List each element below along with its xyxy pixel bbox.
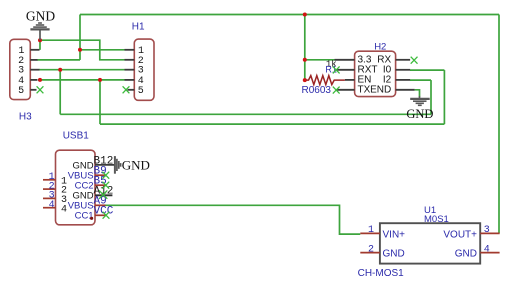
- wire vertical x=60.2: [59, 70, 61, 115]
- ground (below H2, pointing down): [410, 96, 430, 105]
- left pins (red stubs): [43, 180, 56, 208]
- junction dot (40,40.2): [38, 38, 42, 42]
- connector USB1: [43, 150, 114, 225]
- wire H2 I2 row y=80.1: [410, 79, 431, 81]
- svg-text:2: 2: [368, 244, 374, 255]
- wire GND net vertical to H3 pin1: [39, 40, 41, 50]
- wire net TOP horizontal y=14.5: [80, 14, 499, 16]
- ground (top-left, pointing up): [30, 23, 49, 40]
- svg-text:TX: TX: [358, 85, 371, 96]
- left black pin numbers (inside): [61, 176, 67, 215]
- svg-text:CC1: CC1: [75, 211, 94, 222]
- interior pin name labels: [68, 160, 94, 221]
- wire H2 I0 row y=70.1: [410, 69, 444, 71]
- svg-text:VIN+: VIN+: [383, 229, 406, 240]
- no-connect X on H1 pin5: [123, 86, 130, 93]
- svg-text:H1: H1: [132, 22, 145, 33]
- pin1 mark dot: [90, 217, 93, 220]
- wire USB1 A9 to U1 pin1: [106, 205, 361, 234]
- wire vertical x=304.8 down to resistor: [304, 15, 306, 81]
- svg-text:3: 3: [484, 225, 490, 236]
- svg-text:GND: GND: [122, 157, 150, 172]
- no-connect X on USB1 B9: [102, 172, 109, 179]
- no-connect X on H2 RX pin: [411, 57, 418, 64]
- svg-text:5: 5: [18, 86, 24, 97]
- svg-text:H3: H3: [19, 111, 32, 122]
- junction dot (40,79.9): [38, 78, 42, 82]
- wire vertical x=100: [99, 80, 101, 124]
- wire vertical x=431 up to H2 I2: [430, 80, 432, 114]
- svg-text:M0S1: M0S1: [424, 214, 449, 225]
- A9 pin red stub: [95, 204, 106, 206]
- svg-text:4: 4: [49, 200, 55, 211]
- svg-text:USB1: USB1: [63, 131, 90, 142]
- wire long horizontal y=114.3: [60, 113, 431, 115]
- wire H1 pin1 row y=49.8: [80, 49, 125, 51]
- connector H1: [125, 39, 155, 100]
- wire H3 pin4 row y=79.9: [38, 79, 125, 81]
- svg-text:4: 4: [484, 244, 490, 255]
- svg-text:GND: GND: [406, 107, 433, 121]
- svg-text:1: 1: [368, 225, 374, 236]
- wire right edge vertical x=499 down to U1 pin3: [498, 15, 500, 234]
- svg-text:GND: GND: [455, 249, 477, 260]
- no-connect X on H3 pin5: [37, 86, 44, 93]
- ground (right of USB1 B12, pointing right): [115, 156, 121, 174]
- wire vertical x=444.4 up to H2 I0: [443, 70, 445, 124]
- svg-text:END: END: [370, 85, 391, 96]
- junction dot (304.8,80.1): [303, 78, 307, 82]
- wire H2 END pin elbow to ground: [415, 90, 420, 97]
- right pin number labels: [94, 155, 114, 217]
- svg-text:H2: H2: [374, 41, 386, 52]
- wire GND net y=40.2: [40, 40, 125, 60]
- junction dot (80,49.8): [78, 48, 82, 52]
- wire vertical x=80 from top wire down to H3 pin2 row: [79, 15, 81, 60]
- no-connect X on H2 RXT pin: [333, 66, 340, 73]
- svg-text:VCC: VCC: [94, 206, 114, 218]
- junction dot (100,79.9): [98, 78, 102, 82]
- module H2: [335, 51, 415, 96]
- right pins: [95, 165, 114, 195]
- regulator U1: [360, 223, 499, 263]
- no-connect X on USB1 A12: [99, 190, 107, 198]
- left blue pin numbers: [49, 172, 55, 211]
- connector H3: [10, 39, 40, 99]
- no-connect X on H2 TX pin: [333, 87, 340, 94]
- wire H3 pin2 row y=59.9: [37, 59, 80, 61]
- no-connect X on USB1 VCC: [103, 212, 110, 219]
- wire H3 pin3 row y=69.7: [39, 69, 125, 71]
- svg-text:CH-MOS1: CH-MOS1: [358, 268, 405, 279]
- wire long horizontal y=124.1: [100, 123, 444, 125]
- junction dot (304.8,14.5): [303, 13, 307, 17]
- wire H2 pin 3.3 row y=59.8: [305, 59, 335, 61]
- junction dot (60.2,69.7): [58, 68, 62, 72]
- svg-text:GND: GND: [383, 249, 405, 260]
- junction dot (304.8,59.8): [303, 58, 307, 62]
- no-connect X on USB1 B5: [102, 182, 109, 189]
- svg-text:VOUT+: VOUT+: [443, 229, 477, 240]
- svg-text:R0603: R0603: [302, 85, 332, 96]
- svg-text:GND: GND: [26, 8, 55, 23]
- svg-text:4: 4: [61, 204, 67, 215]
- resistor R1: [306, 76, 345, 85]
- svg-text:5: 5: [138, 86, 144, 97]
